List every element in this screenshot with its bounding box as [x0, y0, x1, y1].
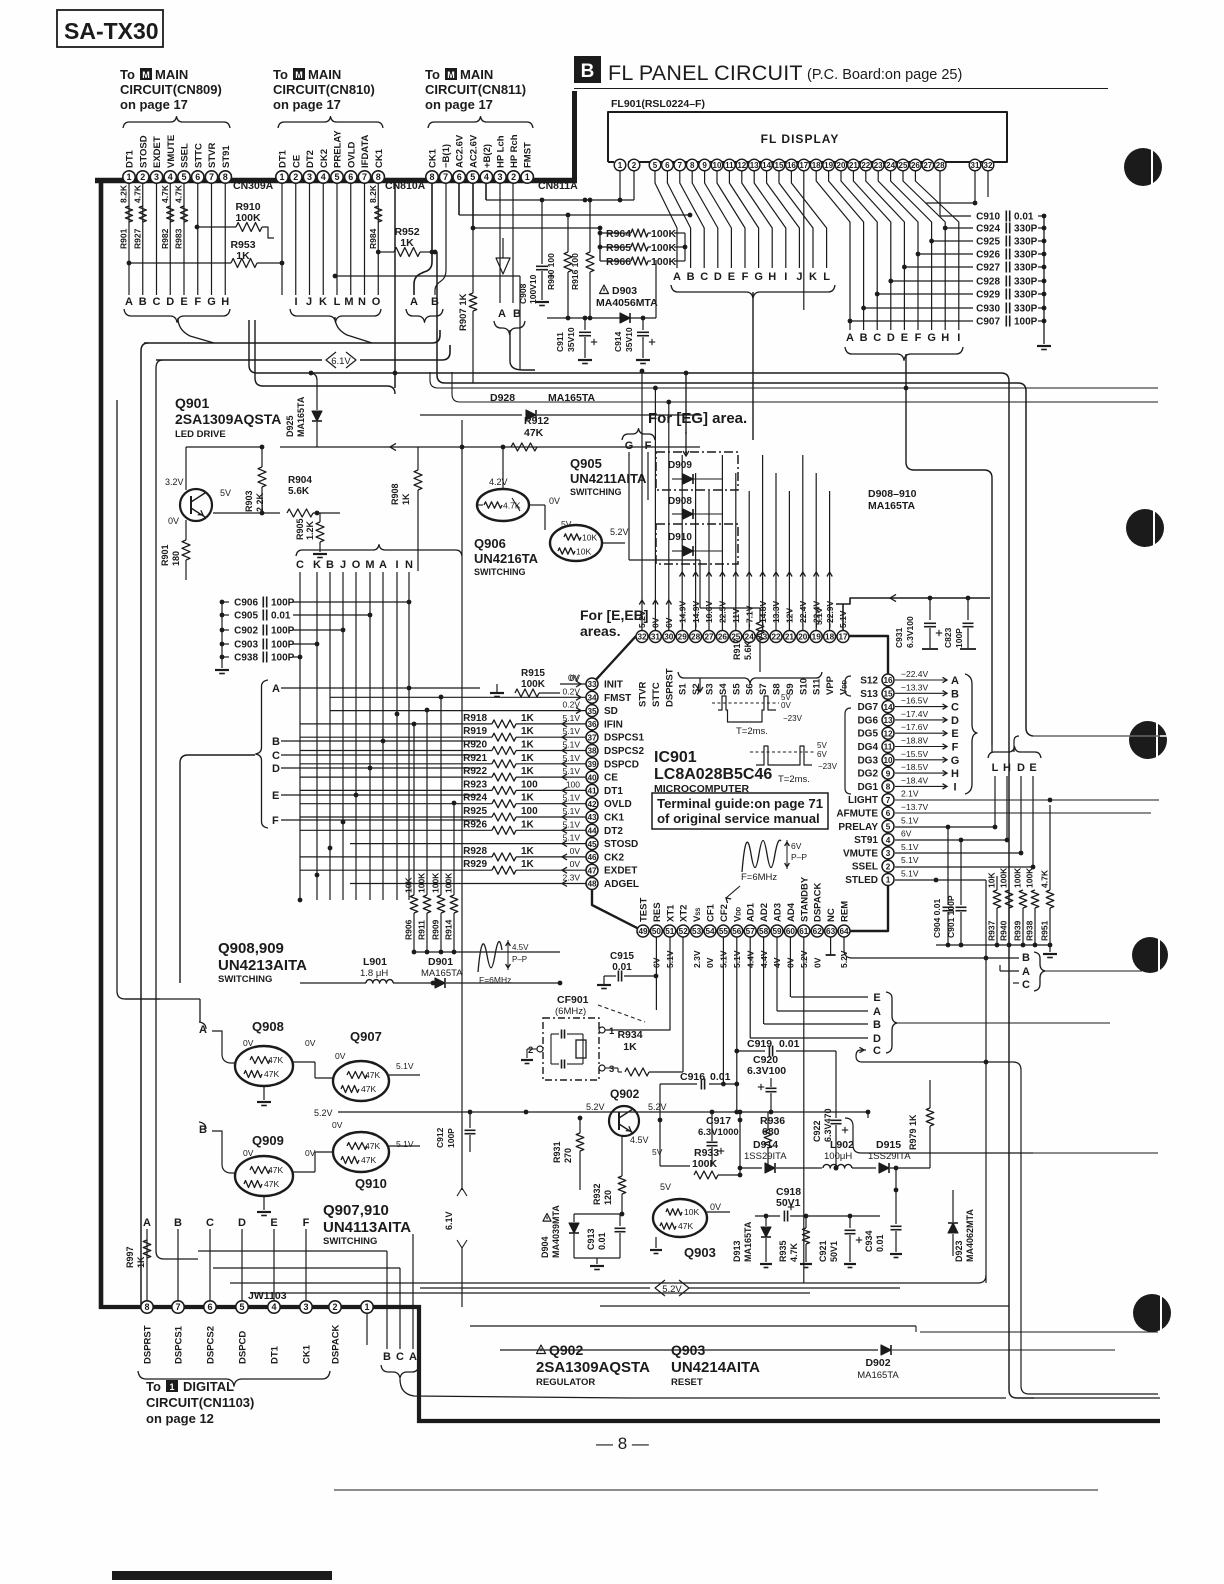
svg-text:C938: C938 [234, 653, 258, 664]
svg-text:C930: C930 [976, 304, 1000, 315]
svg-text:5: 5 [334, 172, 339, 182]
svg-text:42: 42 [587, 800, 597, 809]
svg-text:56: 56 [732, 927, 742, 936]
svg-text:DG7: DG7 [857, 702, 878, 713]
svg-text:2: 2 [511, 172, 516, 182]
svg-text:5: 5 [181, 172, 186, 182]
svg-text:47: 47 [587, 866, 597, 875]
svg-text:44: 44 [587, 827, 597, 836]
svg-text:C: C [206, 1217, 214, 1229]
svg-text:0.2V: 0.2V [563, 686, 581, 696]
svg-text:1K: 1K [521, 793, 535, 804]
svg-text:10K: 10K [684, 1207, 699, 1217]
svg-text:1K: 1K [521, 753, 535, 764]
svg-text:0V: 0V [570, 846, 581, 856]
svg-text:12: 12 [737, 161, 746, 170]
svg-text:5.1V: 5.1V [563, 833, 581, 843]
svg-text:31: 31 [971, 161, 980, 170]
svg-text:N: N [405, 559, 413, 571]
svg-text:C931: C931 [894, 627, 904, 648]
svg-text:For [EG] area.: For [EG] area. [648, 410, 747, 427]
svg-text:100μH: 100μH [824, 1151, 852, 1162]
svg-text:DSPRST: DSPRST [143, 1325, 154, 1364]
svg-text:R911: R911 [417, 920, 427, 940]
svg-text:0.01: 0.01 [1014, 212, 1034, 223]
svg-text:C901 100P: C901 100P [946, 895, 956, 938]
svg-text:5V: 5V [561, 519, 572, 529]
svg-text:A: A [1022, 966, 1030, 978]
svg-text:SWITCHING: SWITCHING [218, 974, 272, 985]
svg-text:12: 12 [883, 729, 893, 738]
registration dots [1124, 148, 1162, 186]
svg-text:L: L [334, 296, 341, 308]
svg-text:DT2: DT2 [305, 150, 316, 168]
svg-text:100V10: 100V10 [528, 274, 538, 304]
svg-text:41: 41 [587, 787, 597, 796]
svg-text:F: F [645, 440, 652, 452]
svg-text:STOSD: STOSD [138, 135, 149, 168]
svg-text:17: 17 [838, 633, 848, 642]
svg-text:G: G [754, 271, 763, 283]
svg-text:16: 16 [787, 161, 796, 170]
svg-text:HP Rch: HP Rch [509, 134, 520, 168]
main buses [144, 330, 440, 343]
svg-text:MAIN: MAIN [460, 67, 493, 82]
svg-text:UN4213AITA: UN4213AITA [218, 957, 307, 974]
svg-text:SWITCHING: SWITCHING [474, 567, 526, 577]
svg-text:2: 2 [528, 1045, 533, 1056]
svg-text:2: 2 [140, 172, 145, 182]
svg-text:D925: D925 [285, 415, 295, 437]
svg-text:10K: 10K [576, 547, 591, 557]
svg-text:−17.6V: −17.6V [901, 722, 929, 732]
svg-text:S4: S4 [718, 683, 729, 695]
svg-text:26: 26 [911, 161, 920, 170]
svg-text:1K: 1K [521, 859, 535, 870]
svg-text:B: B [139, 296, 147, 308]
svg-text:1: 1 [126, 172, 131, 182]
svg-text:M: M [344, 296, 353, 308]
svg-text:CE: CE [604, 773, 618, 784]
svg-text:22: 22 [861, 161, 870, 170]
svg-text:D: D [272, 763, 280, 775]
IC901 left pin column 33..48 [586, 678, 598, 690]
svg-text:D903: D903 [612, 285, 637, 297]
svg-text:100P: 100P [446, 1128, 456, 1148]
svg-text:C: C [873, 332, 881, 344]
svg-text:C902: C902 [234, 626, 258, 637]
svg-text:R928: R928 [463, 846, 487, 857]
svg-text:48: 48 [587, 880, 597, 889]
svg-text:17: 17 [799, 161, 808, 170]
svg-text:11: 11 [725, 161, 734, 170]
svg-text:IC901: IC901 [654, 749, 697, 766]
svg-text:62: 62 [813, 927, 823, 936]
svg-text:Q906: Q906 [474, 536, 506, 551]
svg-text:C: C [1022, 979, 1030, 991]
svg-text:0V: 0V [570, 673, 581, 683]
svg-text:18: 18 [825, 633, 835, 642]
svg-text:6.3V100: 6.3V100 [905, 616, 915, 648]
title box SA-TX30 [57, 10, 163, 47]
svg-text:D923: D923 [954, 1240, 964, 1262]
svg-text:CIRCUIT(CN1103): CIRCUIT(CN1103) [146, 1395, 254, 1410]
svg-text:SA-TX30: SA-TX30 [64, 18, 159, 44]
svg-text:5: 5 [470, 172, 475, 182]
svg-text:R932: R932 [592, 1183, 602, 1205]
dashed pointer CF901 [598, 1005, 645, 1022]
svg-text:TEST: TEST [639, 898, 650, 922]
svg-text:K: K [809, 271, 817, 283]
svg-text:CK1: CK1 [374, 148, 385, 168]
svg-text:C903: C903 [234, 640, 258, 651]
svg-text:D: D [1017, 762, 1025, 774]
svg-text:22: 22 [771, 633, 781, 642]
svg-text:F: F [952, 742, 959, 754]
svg-text:J: J [796, 271, 802, 283]
svg-text:1K: 1K [136, 1256, 146, 1268]
svg-text:R901: R901 [160, 544, 170, 566]
svg-text:I: I [953, 781, 956, 793]
svg-text:1K: 1K [521, 726, 535, 737]
diode matrix D909 [656, 452, 738, 490]
svg-text:CF1: CF1 [706, 903, 717, 922]
svg-text:−16.5V: −16.5V [901, 696, 929, 706]
Q902 Q903 bottom texts [537, 1345, 546, 1354]
svg-text:47K: 47K [678, 1221, 693, 1231]
svg-text:C: C [272, 750, 280, 762]
svg-text:6.1V: 6.1V [444, 1211, 454, 1230]
svg-text:C929: C929 [976, 290, 1000, 301]
svg-text:DSPCS1: DSPCS1 [604, 733, 644, 744]
svg-text:1: 1 [609, 1026, 615, 1037]
svg-text:STTC: STTC [651, 682, 662, 707]
transistor Q910 [333, 1132, 389, 1172]
svg-text:40: 40 [587, 773, 597, 782]
svg-text:H: H [221, 296, 229, 308]
svg-text:R916 100: R916 100 [570, 253, 580, 290]
svg-text:Terminal guide:on page 71: Terminal guide:on page 71 [657, 796, 823, 811]
svg-text:N: N [358, 296, 366, 308]
svg-text:37: 37 [587, 733, 597, 742]
svg-text:8: 8 [690, 161, 695, 170]
svg-text:5.1V: 5.1V [396, 1139, 414, 1149]
svg-text:100P: 100P [271, 598, 295, 609]
svg-text:B: B [1022, 952, 1030, 964]
svg-text:5.1V: 5.1V [563, 819, 581, 829]
svg-text:CF901: CF901 [557, 994, 589, 1006]
svg-text:100: 100 [566, 779, 580, 789]
svg-text:AD4: AD4 [786, 902, 797, 922]
svg-text:R938: R938 [1025, 920, 1035, 941]
svg-text:38: 38 [587, 747, 597, 756]
svg-text:4.5V: 4.5V [512, 943, 529, 952]
svg-text:G: G [951, 755, 960, 767]
svg-text:1: 1 [364, 1302, 369, 1312]
svg-text:D910: D910 [668, 532, 692, 543]
svg-text:L901: L901 [363, 956, 387, 968]
svg-text:6.3V1000: 6.3V1000 [698, 1127, 739, 1138]
svg-text:4: 4 [321, 172, 326, 182]
svg-text:on page 17: on page 17 [425, 97, 493, 112]
svg-text:R929: R929 [463, 859, 487, 870]
svg-text:7: 7 [175, 1302, 180, 1312]
wire EG tails [629, 559, 700, 561]
svg-text:7: 7 [678, 161, 683, 170]
svg-text:3: 3 [154, 172, 159, 182]
svg-text:4: 4 [886, 836, 891, 845]
svg-text:0V: 0V [705, 957, 715, 968]
svg-text:F: F [194, 296, 201, 308]
svg-text:270: 270 [563, 1148, 573, 1163]
svg-text:5.1V: 5.1V [563, 793, 581, 803]
svg-text:FL PANEL CIRCUIT: FL PANEL CIRCUIT [608, 61, 803, 85]
svg-text:1K: 1K [521, 713, 535, 724]
svg-text:T=2ms.: T=2ms. [778, 774, 810, 785]
svg-text:1K: 1K [401, 493, 411, 505]
svg-text:0V: 0V [812, 957, 822, 968]
svg-text:R908: R908 [390, 483, 400, 505]
svg-text:D914: D914 [753, 1139, 778, 1151]
wire net-3 [473, 227, 600, 229]
svg-text:−17.4V: −17.4V [901, 709, 929, 719]
letters A-F rows [256, 680, 268, 828]
svg-text:CIRCUIT(CN811): CIRCUIT(CN811) [425, 82, 526, 97]
svg-text:FL901(RSL0224–F): FL901(RSL0224–F) [611, 98, 705, 110]
svg-text:Q908: Q908 [252, 1019, 284, 1034]
svg-text:5.2V: 5.2V [586, 1102, 605, 1112]
svg-text:AD3: AD3 [773, 903, 784, 922]
svg-text:9: 9 [702, 161, 707, 170]
svg-text:S10: S10 [798, 678, 809, 695]
svg-text:16: 16 [883, 676, 893, 685]
svg-text:J: J [340, 559, 346, 571]
svg-text:14: 14 [883, 703, 893, 712]
svg-text:5.1V: 5.1V [901, 815, 919, 825]
svg-text:−B(1): −B(1) [441, 144, 452, 168]
svg-text:330P: 330P [1014, 250, 1038, 261]
svg-text:49: 49 [638, 927, 648, 936]
svg-text:DT2: DT2 [604, 826, 623, 837]
resistors R964 R965 R966 [599, 228, 601, 261]
svg-text:Q902: Q902 [610, 1087, 640, 1101]
svg-text:0V: 0V [570, 859, 581, 869]
svg-text:C: C [951, 702, 959, 714]
svg-text:MA4062MTA: MA4062MTA [965, 1209, 975, 1262]
svg-text:5: 5 [653, 161, 658, 170]
svg-text:B: B [272, 736, 280, 748]
svg-text:47K: 47K [264, 1069, 279, 1079]
svg-text:5.1V: 5.1V [563, 753, 581, 763]
svg-text:2.1V: 2.1V [901, 789, 919, 799]
svg-text:C915: C915 [610, 951, 634, 962]
svg-text:D908–910: D908–910 [868, 488, 917, 500]
svg-text:8: 8 [429, 172, 434, 182]
svg-text:100K: 100K [417, 872, 427, 893]
svg-text:100: 100 [521, 779, 538, 790]
svg-text:5.2V: 5.2V [314, 1108, 333, 1118]
svg-text:DSPCD: DSPCD [238, 1331, 249, 1364]
svg-text:−23V: −23V [818, 762, 838, 771]
svg-text:FMST: FMST [523, 142, 534, 168]
svg-text:CK1: CK1 [428, 148, 439, 168]
svg-text:(P.C. Board:on page 25): (P.C. Board:on page 25) [807, 67, 962, 83]
svg-text:NC: NC [826, 908, 837, 922]
svg-text:45: 45 [587, 840, 597, 849]
svg-text:ADGEL: ADGEL [604, 879, 639, 890]
svg-text:DT1: DT1 [125, 149, 136, 168]
svg-text:58: 58 [759, 927, 769, 936]
svg-text:51: 51 [665, 927, 675, 936]
svg-text:27: 27 [704, 633, 714, 642]
svg-text:100P: 100P [271, 626, 295, 637]
svg-text:E: E [901, 332, 908, 344]
svg-text:UN4113AITA: UN4113AITA [323, 1219, 411, 1236]
svg-text:Q903: Q903 [671, 1342, 705, 1358]
svg-text:Q903: Q903 [684, 1245, 716, 1260]
svg-text:14: 14 [762, 161, 771, 170]
svg-text:SWITCHING: SWITCHING [570, 487, 622, 497]
svg-text:SSEL: SSEL [852, 862, 878, 873]
svg-text:LC8A028B5C46: LC8A028B5C46 [654, 766, 772, 783]
svg-text:7: 7 [886, 796, 891, 805]
svg-text:UN4211AITA: UN4211AITA [570, 471, 647, 486]
svg-text:MA4039MTA: MA4039MTA [551, 1205, 561, 1258]
svg-text:8: 8 [144, 1302, 149, 1312]
svg-text:C: C [396, 1351, 404, 1363]
svg-text:−22.4V: −22.4V [901, 669, 929, 679]
svg-text:D913: D913 [732, 1240, 742, 1262]
svg-text:B: B [860, 332, 868, 344]
svg-text:I: I [957, 332, 960, 344]
svg-text:5.2V: 5.2V [648, 1102, 667, 1112]
svg-text:I: I [395, 559, 398, 571]
svg-text:O: O [352, 559, 361, 571]
svg-text:100P: 100P [954, 628, 964, 648]
svg-text:C928: C928 [976, 277, 1000, 288]
svg-text:10K: 10K [987, 872, 997, 888]
IC901 bottom pin row 49..64 [637, 925, 649, 937]
svg-text:1K: 1K [521, 846, 535, 857]
svg-text:E: E [270, 1217, 277, 1229]
mid verticals to bottom [461, 550, 463, 1190]
svg-text:S1: S1 [678, 683, 689, 695]
svg-text:R940: R940 [999, 920, 1009, 941]
svg-text:A: A [410, 296, 418, 308]
svg-text:7: 7 [362, 172, 367, 182]
svg-text:B: B [581, 61, 595, 82]
svg-text:3: 3 [307, 172, 312, 182]
svg-text:E: E [728, 271, 735, 283]
svg-text:50: 50 [652, 927, 662, 936]
svg-text:47K: 47K [268, 1055, 283, 1065]
svg-text:I: I [784, 271, 787, 283]
svg-text:2SA1309AQSTA: 2SA1309AQSTA [536, 1359, 650, 1376]
svg-text:FMST: FMST [604, 693, 631, 704]
svg-text:MA165TA: MA165TA [868, 500, 915, 512]
svg-text:330P: 330P [1014, 224, 1038, 235]
svg-text:C: C [296, 559, 304, 571]
svg-text:MAIN: MAIN [155, 67, 188, 82]
svg-text:2: 2 [886, 862, 891, 871]
svg-text:23: 23 [874, 161, 883, 170]
svg-text:5V: 5V [220, 488, 231, 498]
svg-text:SSEL: SSEL [180, 143, 191, 168]
svg-text:4.7K: 4.7K [160, 184, 170, 203]
svg-text:IFIN: IFIN [604, 719, 623, 730]
right-bottom corner wires [1033, 1152, 1158, 1154]
svg-text:31: 31 [651, 633, 661, 642]
svg-text:−23V: −23V [783, 714, 803, 723]
svg-text:25: 25 [899, 161, 908, 170]
svg-text:−18.4V: −18.4V [901, 775, 929, 785]
svg-text:64: 64 [839, 927, 849, 936]
svg-text:B: B [873, 1019, 881, 1031]
svg-text:H: H [951, 768, 959, 780]
svg-text:13: 13 [883, 716, 893, 725]
svg-text:S5: S5 [731, 683, 742, 695]
svg-text:5.1V: 5.1V [563, 726, 581, 736]
svg-text:R939: R939 [1013, 920, 1023, 941]
svg-text:C906: C906 [234, 598, 258, 609]
svg-text:G: G [927, 332, 936, 344]
svg-text:ST91: ST91 [854, 835, 878, 846]
svg-text:C911: C911 [555, 332, 565, 352]
svg-text:CK1: CK1 [604, 813, 624, 824]
svg-text:C: C [873, 1045, 881, 1057]
FL pins 17-26 wires to letters A-I [816, 171, 850, 330]
svg-text:XT1: XT1 [665, 904, 676, 922]
svg-text:DG3: DG3 [857, 755, 878, 766]
svg-text:F: F [915, 332, 922, 344]
svg-text:C907: C907 [976, 317, 1000, 328]
svg-text:0V: 0V [243, 1038, 254, 1048]
svg-text:B: B [174, 1217, 182, 1229]
svg-text:33: 33 [587, 680, 597, 689]
svg-text:15: 15 [883, 690, 893, 699]
capacitors C906 C905 C902 C903 C938 [221, 602, 223, 668]
svg-text:5V: 5V [652, 1147, 663, 1157]
svg-text:EXDET: EXDET [152, 136, 163, 168]
svg-text:CK1: CK1 [302, 1344, 313, 1364]
svg-text:A: A [143, 1217, 151, 1229]
svg-text:UN4216TA: UN4216TA [474, 551, 539, 566]
svg-text:100K: 100K [651, 256, 677, 268]
svg-text:0V: 0V [710, 1202, 721, 1212]
microcomputer IC901 outline [592, 636, 888, 931]
svg-text:20: 20 [837, 161, 846, 170]
svg-text:VPP: VPP [825, 675, 836, 695]
svg-text:VMUTE: VMUTE [166, 135, 177, 168]
svg-text:R903: R903 [244, 490, 254, 512]
svg-text:STLED: STLED [845, 875, 878, 886]
svg-text:S11: S11 [812, 678, 823, 695]
svg-text:5.1V: 5.1V [563, 766, 581, 776]
svg-text:6.3V470: 6.3V470 [823, 1108, 833, 1142]
svg-text:100K: 100K [235, 212, 261, 224]
svg-text:RES: RES [652, 902, 663, 922]
svg-text:39: 39 [587, 760, 597, 769]
svg-text:on page 17: on page 17 [273, 97, 341, 112]
svg-text:Q908,909: Q908,909 [218, 940, 284, 957]
waveform pulse2 T=2ms [756, 746, 812, 765]
svg-text:P–P: P–P [512, 955, 527, 964]
svg-text:6.3V100: 6.3V100 [747, 1065, 786, 1077]
svg-text:AFMUTE: AFMUTE [836, 809, 878, 820]
svg-text:CIRCUIT(CN809): CIRCUIT(CN809) [120, 82, 222, 97]
diode D902 [881, 1345, 891, 1355]
svg-text:32: 32 [637, 633, 647, 642]
